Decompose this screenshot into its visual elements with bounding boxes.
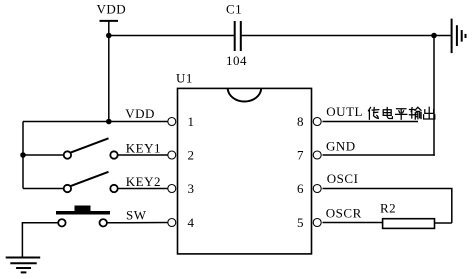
wire left bus vertical (22, 122, 24, 189)
switch KEY1 (64, 138, 118, 158)
wire R2 to OSCI branch (435, 222, 452, 224)
svg-text:8: 8 (297, 114, 304, 129)
switch KEY2 (64, 172, 118, 192)
wire pin 6 OSCI (323, 189, 452, 224)
wire SW to pin 4 (107, 222, 168, 224)
wire pin 7 GND to earth node (323, 154, 435, 156)
svg-text:SW: SW (126, 207, 147, 222)
wire bus to KEY2 switch (23, 188, 64, 190)
svg-text:5: 5 (297, 215, 304, 230)
power symbol VDD (97, 1, 127, 21)
svg-text:VDD: VDD (125, 106, 155, 121)
svg-text:104: 104 (226, 53, 247, 68)
pin 1 (168, 118, 176, 126)
ground earth top-right (452, 19, 466, 54)
wire bus to pin 1 (23, 121, 168, 123)
svg-text:1: 1 (188, 114, 195, 129)
op-amp U1 (176, 71, 312, 254)
junction VDD stem on pin1 wire (106, 119, 112, 125)
svg-text:KEY2: KEY2 (126, 174, 161, 189)
wire VDD stem (108, 21, 110, 122)
resistor R2 (380, 201, 435, 229)
pin 3 (168, 185, 176, 193)
svg-text:3: 3 (188, 181, 195, 196)
pushbutton SW (56, 206, 110, 227)
svg-text:2: 2 (188, 148, 195, 163)
svg-text:OSCI: OSCI (327, 171, 359, 186)
svg-text:GND: GND (326, 139, 356, 154)
wire pin 5 OSCR to R2 (323, 222, 383, 224)
junction KEY1 branch (20, 152, 26, 158)
pin 4 (168, 219, 176, 227)
pin 7 (313, 151, 321, 159)
svg-text:OUTL: OUTL (326, 104, 363, 119)
svg-text:VDD: VDD (97, 1, 127, 16)
svg-text:4: 4 (188, 215, 195, 230)
wire C1 to earth (241, 35, 451, 37)
svg-text:C1: C1 (226, 2, 242, 17)
wire KEY1 to pin 2 (118, 154, 168, 156)
svg-text:6: 6 (297, 181, 304, 196)
wire KEY2 to pin 3 (118, 188, 168, 190)
capacitor C1 (226, 2, 247, 69)
ground earth bottom-left (6, 258, 41, 273)
label chinese low-level-output (368, 107, 434, 119)
junction at VDD/C1 (106, 33, 112, 39)
wire bus to KEY1 switch (23, 154, 64, 156)
wire earth node down to GND (433, 36, 436, 156)
pin 2 (168, 151, 176, 159)
wire SW to ground (22, 223, 58, 258)
pin 5 (313, 219, 321, 227)
pin 6 (313, 185, 321, 193)
svg-text:7: 7 (297, 148, 304, 163)
wire VDD to C1 (109, 35, 235, 37)
svg-text:U1: U1 (176, 71, 193, 86)
svg-text:OSCR: OSCR (326, 206, 362, 221)
wire pin 8 OUTL (323, 121, 419, 123)
pin 8 (313, 118, 321, 126)
svg-text:KEY1: KEY1 (126, 141, 161, 156)
junction at earth node (431, 33, 437, 39)
svg-text:R2: R2 (380, 201, 396, 216)
